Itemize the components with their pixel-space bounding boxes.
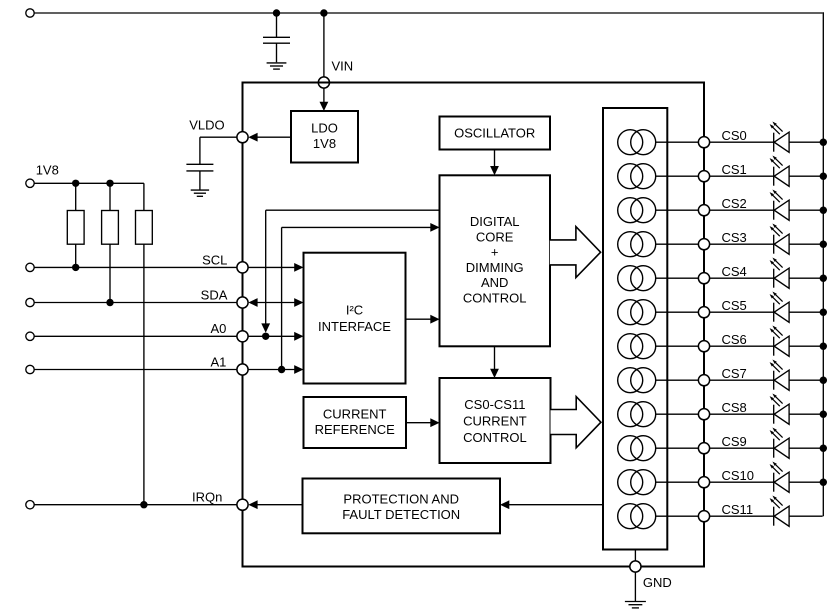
arrow A0 into I2C <box>294 332 303 341</box>
IC boundary <box>243 83 705 567</box>
wire LED D9 to rail <box>789 413 823 415</box>
svg-text:DIMMING: DIMMING <box>466 260 524 275</box>
arrow SDA into I2C <box>294 298 303 307</box>
resistor R3 (IRQn pull-up) <box>136 211 153 245</box>
LED D12 on CS11 <box>773 507 775 526</box>
wire protection to IRQn <box>257 504 303 506</box>
capacitor C1 (VIN bypass) <box>276 13 278 37</box>
wire R1 bottom lead <box>75 244 77 267</box>
node A0 terminal <box>26 332 34 340</box>
current source I9 (CS9 sink) <box>618 436 643 461</box>
block LDO 1V8 <box>291 111 358 163</box>
wire CS8 to LED <box>710 413 774 415</box>
wire LED D1 to rail <box>789 141 823 143</box>
arrow into protection <box>500 500 509 509</box>
ground (below GND pin) <box>625 601 646 603</box>
block OSCILLATOR <box>440 117 551 150</box>
junction rail / CS10 LED <box>820 479 827 486</box>
junction rail / CS7 LED <box>820 377 827 384</box>
svg-text:CS4: CS4 <box>722 264 747 279</box>
pin CS6 <box>698 341 709 352</box>
wire core-to-A0 vertical <box>265 210 267 325</box>
junction R1 / SCL <box>72 264 79 271</box>
current source I8 (CS8 sink) <box>618 402 643 427</box>
wire R2 bottom lead <box>109 244 111 302</box>
wire SCL external <box>34 266 237 268</box>
current source I5 (CS5 sink) <box>618 300 643 325</box>
svg-text:FAULT DETECTION: FAULT DETECTION <box>342 507 460 522</box>
node SDA terminal <box>26 298 34 306</box>
svg-text:CS6: CS6 <box>722 332 747 347</box>
wire CS1 to LED <box>710 175 774 177</box>
resistor R2 (SDA pull-up) <box>102 211 119 245</box>
junction A1 / core branch <box>278 366 285 373</box>
node 1V8 terminal <box>26 179 34 187</box>
pin GND <box>630 561 641 572</box>
svg-text:I²C: I²C <box>346 303 363 318</box>
current source I10 (CS10 sink) <box>618 470 643 495</box>
LED D11 on CS10 <box>773 473 775 492</box>
wire A0 internal <box>248 335 296 337</box>
LED D10 on CS9 <box>773 439 775 458</box>
wire CS11 to LED <box>710 515 774 517</box>
block DIGITAL CORE <box>440 175 551 346</box>
wire I2C to core <box>406 318 432 320</box>
wire LED D12 to rail <box>789 515 823 517</box>
LED D5 on CS4 <box>773 269 775 288</box>
pin CS8 <box>698 409 709 420</box>
wire R1 top lead <box>75 183 77 210</box>
pin SDA <box>237 297 248 308</box>
wire CS0 to LED <box>710 141 774 143</box>
arrow SCL into I2C <box>294 263 303 272</box>
pin IRQn <box>237 499 248 510</box>
arrow A1 into core <box>430 223 439 232</box>
wire SDA external <box>34 302 237 304</box>
svg-text:CS7: CS7 <box>722 366 747 381</box>
block I2C INTERFACE <box>304 253 406 384</box>
pin CS9 <box>698 443 709 454</box>
wire CS9 to LED <box>710 447 774 449</box>
wire I5 to pin CS5 <box>656 311 699 313</box>
LED D3 on CS2 <box>773 201 775 220</box>
junction rail / CS0 LED <box>820 139 827 146</box>
svg-text:GND: GND <box>643 575 672 590</box>
junction top rail / bypass capacitor <box>273 9 280 16</box>
arrow into VLDO <box>248 133 257 142</box>
block PROTECTION AND FAULT DETECTION <box>303 479 501 534</box>
svg-text:CS11: CS11 <box>722 502 754 517</box>
junction rail / CS3 LED <box>820 241 827 248</box>
svg-text:CS9: CS9 <box>722 434 747 449</box>
pin CS10 <box>698 477 709 488</box>
wire oscillator to core <box>494 150 496 168</box>
wire I7 to pin CS7 <box>656 379 699 381</box>
resistor R1 (SCL pull-up) <box>67 211 84 245</box>
wire CS5 to LED <box>710 311 774 313</box>
current source I1 (CS1 sink) <box>618 164 643 189</box>
wire CS10 to LED <box>710 481 774 483</box>
current source I11 (CS11 sink) <box>618 504 643 529</box>
pin CS3 <box>698 239 709 250</box>
arrow onto A0 <box>261 323 270 332</box>
pin CS4 <box>698 273 709 284</box>
wire VIN to LDO <box>323 88 325 104</box>
LED D4 on CS3 <box>773 235 775 254</box>
current source I2 (CS2 sink) <box>618 198 643 223</box>
svg-text:A0: A0 <box>210 321 226 336</box>
svg-text:REFERENCE: REFERENCE <box>315 422 396 437</box>
wire sink column to protection <box>509 504 603 506</box>
wire LED D11 to rail <box>789 481 823 483</box>
junction rail / CS8 LED <box>820 411 827 418</box>
svg-text:VIN: VIN <box>332 59 354 74</box>
wire VLDO to capacitor <box>200 136 237 138</box>
wire A0 external <box>34 335 237 337</box>
wire I2 to pin CS2 <box>656 209 699 211</box>
pin CS1 <box>698 171 709 182</box>
wire LED D6 to rail <box>789 311 823 313</box>
junction rail / CS9 LED <box>820 445 827 452</box>
LED D9 on CS8 <box>773 405 775 424</box>
wire CS7 to LED <box>710 379 774 381</box>
arrow SDA out of I2C <box>248 298 257 307</box>
svg-text:VLDO: VLDO <box>189 118 224 133</box>
wire A1 external <box>34 369 237 371</box>
pin CS11 <box>698 511 709 522</box>
current source I3 (CS3 sink) <box>618 232 643 257</box>
svg-text:CORE: CORE <box>476 229 514 244</box>
node A1 terminal <box>26 365 34 373</box>
arrow onto IRQn pin <box>248 500 257 509</box>
wire LED D3 to rail <box>789 209 823 211</box>
wire CS2 to LED <box>710 209 774 211</box>
arrow into LDO <box>320 102 329 111</box>
wire LED D8 to rail <box>789 379 823 381</box>
wire sink column to GND <box>634 550 636 561</box>
junction R3 / IRQn <box>140 501 147 508</box>
pin VIN <box>318 77 329 88</box>
svg-text:1V8: 1V8 <box>36 162 59 177</box>
wire right vertical LED anode rail <box>822 12 824 516</box>
svg-text:CS0: CS0 <box>722 128 747 143</box>
svg-text:A1: A1 <box>210 354 226 369</box>
pin CS7 <box>698 375 709 386</box>
svg-text:1V8: 1V8 <box>313 136 336 151</box>
junction rail / CS4 LED <box>820 275 827 282</box>
svg-text:SDA: SDA <box>201 287 228 302</box>
svg-text:AND: AND <box>481 275 508 290</box>
LED D8 on CS7 <box>773 371 775 390</box>
wire I6 to pin CS6 <box>656 345 699 347</box>
wire A1-to-core horizontal <box>282 226 432 228</box>
svg-text:CS2: CS2 <box>722 196 747 211</box>
wire LED D2 to rail <box>789 175 823 177</box>
node SCL terminal <box>26 263 34 271</box>
svg-text:CURRENT: CURRENT <box>323 407 387 422</box>
svg-text:PROTECTION AND: PROTECTION AND <box>343 492 459 507</box>
wire 1V8 rail <box>34 182 144 184</box>
wire top supply rail horizontal <box>34 12 822 14</box>
wire R3 top lead <box>143 183 145 210</box>
LED D6 on CS5 <box>773 303 775 322</box>
wire A1-to-core vertical <box>281 227 283 369</box>
svg-text:INTERFACE: INTERFACE <box>318 319 391 334</box>
LED D2 on CS1 <box>773 167 775 186</box>
pin SCL <box>237 262 248 273</box>
capacitor C2 (VLDO) <box>199 137 201 164</box>
wire LDO to VLDO <box>257 136 292 138</box>
wire R2 top lead <box>109 183 111 210</box>
ground (below C1) <box>267 62 287 64</box>
svg-text:CS1: CS1 <box>722 162 747 177</box>
wire I11 to pin CS11 <box>656 515 699 517</box>
bus arrow core to current sinks <box>550 227 601 278</box>
current source I4 (CS4 sink) <box>618 266 643 291</box>
wire LED D5 to rail <box>789 277 823 279</box>
wire GND to ground <box>634 572 636 601</box>
svg-text:CS10: CS10 <box>722 468 755 483</box>
wire I3 to pin CS3 <box>656 243 699 245</box>
junction rail / CS1 LED <box>820 173 827 180</box>
svg-text:OSCILLATOR: OSCILLATOR <box>454 126 535 141</box>
wire core-to-A0 horizontal <box>266 209 440 211</box>
svg-text:+: + <box>491 245 499 260</box>
ground (below C2) <box>191 189 209 191</box>
svg-text:IRQn: IRQn <box>192 490 222 505</box>
svg-text:CURRENT: CURRENT <box>463 414 527 429</box>
wire I8 to pin CS8 <box>656 413 699 415</box>
junction R2 / SDA <box>106 299 113 306</box>
current source I7 (CS7 sink) <box>618 368 643 393</box>
arrow I2C into core <box>430 315 439 324</box>
wire SCL internal <box>248 266 296 268</box>
pin VLDO <box>237 132 248 143</box>
wire VIN drop <box>323 13 325 77</box>
wire current reference to CS control <box>406 422 432 424</box>
LED D7 on CS6 <box>773 337 775 356</box>
svg-text:CS0-CS11: CS0-CS11 <box>464 397 525 412</box>
pin A1 <box>237 364 248 375</box>
svg-text:CS8: CS8 <box>722 400 747 415</box>
junction 1V8 / R2 <box>106 180 113 187</box>
pin CS5 <box>698 307 709 318</box>
pin CS2 <box>698 205 709 216</box>
wire R3 bottom lead <box>143 244 145 505</box>
svg-text:LDO: LDO <box>311 120 338 135</box>
current source I0 (CS0 sink) <box>618 130 643 155</box>
wire CS4 to LED <box>710 277 774 279</box>
wire LED D10 to rail <box>789 447 823 449</box>
wire core to CS control <box>494 346 496 370</box>
junction rail / CS5 LED <box>820 309 827 316</box>
bus arrow CS control to current sinks <box>551 397 601 448</box>
svg-text:CONTROL: CONTROL <box>463 430 527 445</box>
wire I0 to pin CS0 <box>656 141 699 143</box>
LED D1 on CS0 <box>773 133 775 152</box>
current source I6 (CS6 sink) <box>618 334 643 359</box>
junction A0 / core branch <box>262 333 269 340</box>
junction 1V8 / R1 <box>72 180 79 187</box>
wire CS6 to LED <box>710 345 774 347</box>
block CS0-CS11 CURRENT CONTROL <box>440 378 551 463</box>
pin A0 <box>237 331 248 342</box>
wire I9 to pin CS9 <box>656 447 699 449</box>
wire LED D4 to rail <box>789 243 823 245</box>
junction top rail / VIN <box>320 9 327 16</box>
arrow A1 into I2C <box>294 365 303 374</box>
wire I10 to pin CS10 <box>656 481 699 483</box>
block current sink column <box>603 108 667 550</box>
wire SDA internal <box>257 302 296 304</box>
node IRQn terminal <box>26 501 34 509</box>
svg-text:DIGITAL: DIGITAL <box>470 214 520 229</box>
arrow current reference into CS control <box>430 418 439 427</box>
wire I1 to pin CS1 <box>656 175 699 177</box>
wire A1 internal <box>248 369 296 371</box>
pin CS0 <box>698 137 709 148</box>
junction rail / CS2 LED <box>820 207 827 214</box>
block CURRENT REFERENCE <box>304 397 407 448</box>
node VIN supply terminal (top-left) <box>26 9 34 17</box>
arrow core into CS control <box>490 369 499 378</box>
svg-text:CS3: CS3 <box>722 230 747 245</box>
wire LED D7 to rail <box>789 345 823 347</box>
svg-text:SCL: SCL <box>202 252 227 267</box>
wire CS3 to LED <box>710 243 774 245</box>
svg-text:CONTROL: CONTROL <box>463 291 527 306</box>
junction rail / CS6 LED <box>820 343 827 350</box>
svg-text:CS5: CS5 <box>722 298 747 313</box>
wire IRQn external <box>34 504 237 506</box>
arrow oscillator into core <box>490 166 499 175</box>
wire I4 to pin CS4 <box>656 277 699 279</box>
